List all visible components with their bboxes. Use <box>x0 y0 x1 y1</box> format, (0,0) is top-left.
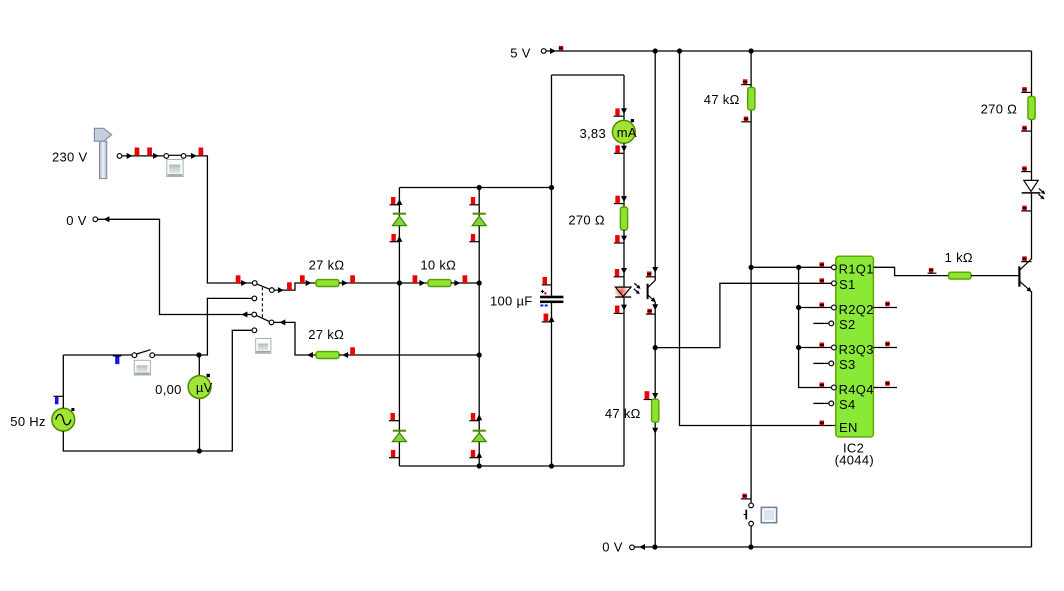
resistor 27k bottom <box>316 352 339 359</box>
wire Q2 output stub <box>873 307 897 309</box>
wire opto collector leg <box>654 51 656 281</box>
svg-text:R3Q3: R3Q3 <box>839 342 874 357</box>
current arrow up <box>476 414 482 420</box>
current bar <box>542 277 552 285</box>
current bar <box>469 234 479 242</box>
wire AC bottom lead <box>63 431 199 451</box>
wire AC row to switch <box>63 354 132 356</box>
current bar <box>463 275 468 283</box>
wire 27k bottom to mid leg <box>339 354 479 356</box>
node junction uV meter bottom <box>197 448 202 453</box>
wire S2 stub <box>813 322 829 324</box>
svg-text:270 Ω: 270 Ω <box>568 212 605 227</box>
current arrow <box>342 280 348 286</box>
svg-text:S2: S2 <box>839 317 856 332</box>
svg-text:S4: S4 <box>839 397 856 412</box>
push button SW2 <box>134 360 150 375</box>
op IC2 body <box>836 256 874 437</box>
node junction bridge top mid <box>477 185 482 190</box>
pin circle R3Q3 <box>832 345 837 350</box>
current bar <box>469 413 479 421</box>
current arrow <box>241 280 247 286</box>
current bar <box>147 148 152 156</box>
wire pole E to 27k bottom <box>274 322 316 355</box>
current arrow <box>307 352 313 358</box>
current arrow up <box>396 199 402 205</box>
wire switch to node <box>155 354 199 356</box>
light arrows <box>1038 188 1046 201</box>
current bar <box>236 275 241 283</box>
current arrow <box>153 153 159 159</box>
terminal 5 V <box>541 48 556 54</box>
voltage marker small <box>1021 166 1031 171</box>
svg-text:27 kΩ: 27 kΩ <box>309 257 345 272</box>
voltage marker small <box>1021 126 1031 131</box>
switch SW1 (closed) <box>164 154 186 159</box>
wire 0V bottom rail <box>635 546 1032 548</box>
LED of optocoupler (lit) <box>614 284 631 299</box>
wire switch to rail <box>750 526 752 547</box>
voltage marker small <box>741 494 751 499</box>
current arrow down <box>621 108 627 114</box>
resistor 47k mid <box>652 399 659 422</box>
wire LED to bottom rail <box>623 298 625 466</box>
node junction bridge bottom cap <box>549 463 554 468</box>
pin circle S2 <box>829 321 834 326</box>
svg-text:S3: S3 <box>839 357 856 372</box>
pin circle R4Q4 <box>832 385 837 390</box>
current bar <box>644 391 656 399</box>
current arrow <box>306 280 312 286</box>
node junction mid leg bottom row <box>477 352 482 357</box>
current bar <box>135 148 140 156</box>
resistor 270 right <box>1028 96 1035 119</box>
voltage marker small R3 <box>820 343 824 348</box>
node junction mid bridge leg top row <box>477 280 482 285</box>
wire bridge left leg <box>398 188 400 467</box>
voltage marker small <box>1021 256 1031 261</box>
svg-text:0 V: 0 V <box>66 213 86 228</box>
pin circle S4 <box>829 401 834 406</box>
current arrow down <box>621 196 627 202</box>
voltage marker small <box>741 117 751 122</box>
wire right leg upper <box>1031 51 1033 180</box>
current arrow <box>419 280 425 286</box>
svg-text:0 V: 0 V <box>602 539 622 554</box>
svg-text:10 kΩ: 10 kΩ <box>420 257 456 272</box>
push switch SW3 <box>744 503 754 526</box>
voltage marker small <box>646 309 655 314</box>
push button SW3 <box>761 507 776 522</box>
wire meter to resistor <box>623 143 625 207</box>
wire pole B to 27k top <box>274 283 316 290</box>
resistor 27k top <box>316 280 339 287</box>
wire 47k top leg <box>750 51 752 503</box>
wire resistor to LED <box>623 230 625 287</box>
node junction left bridge leg top row <box>397 280 402 285</box>
node junction 47k to R1 row <box>749 265 754 270</box>
wire right leg lower <box>1031 291 1033 547</box>
current arrow up <box>396 236 402 242</box>
svg-text:EN: EN <box>839 420 858 435</box>
wire 0V to DPDT pole D <box>98 219 252 314</box>
current arrow down <box>652 304 658 310</box>
wire S4 stub <box>813 402 829 404</box>
current bar <box>614 108 624 116</box>
svg-text:27 kΩ: 27 kΩ <box>308 327 344 342</box>
wire R1 row <box>751 266 831 268</box>
current bar <box>350 347 355 355</box>
wire 27k to 10k <box>339 282 428 284</box>
voltage marker small R1 <box>820 262 824 267</box>
svg-text:5 V: 5 V <box>510 46 530 61</box>
wire Q3 output stub <box>873 347 897 349</box>
wire cap leg upper <box>551 75 553 296</box>
pin circle S1 <box>832 281 837 286</box>
wire switch to DPDT pole A <box>186 156 252 283</box>
voltage marker small Q2 <box>885 302 889 307</box>
wire emitter node to S1 pin <box>655 283 831 347</box>
voltmeter uV <box>188 355 213 451</box>
svg-text:3,83: 3,83 <box>579 126 606 141</box>
push button SW1 <box>167 160 183 177</box>
voltage marker small <box>1021 206 1031 211</box>
push button DPDT <box>256 339 271 354</box>
svg-text:270 Ω: 270 Ω <box>981 102 1018 117</box>
light arrows <box>634 283 642 295</box>
phototransistor of optocoupler <box>648 280 658 304</box>
wire cap leg lower <box>551 303 553 466</box>
current arrow <box>454 280 460 286</box>
wire R2 stub <box>799 307 832 309</box>
wire pole C down to AC row <box>199 298 252 355</box>
wire S3 stub <box>813 362 829 364</box>
svg-text:S1: S1 <box>839 277 856 292</box>
node junction rail switch leg <box>748 544 753 549</box>
current bar <box>389 450 399 458</box>
svg-text:R4Q4: R4Q4 <box>839 382 874 397</box>
wire LED leg top <box>623 75 625 121</box>
wire Q1 output <box>873 267 948 275</box>
current bar <box>614 269 624 277</box>
current arrow up <box>476 452 482 458</box>
current arrow down <box>621 146 627 152</box>
current arrow down <box>621 305 627 311</box>
voltage marker small Q4 <box>885 381 889 386</box>
LED right (off) <box>1022 180 1041 193</box>
diode D2 <box>472 214 486 226</box>
resistor 47k top <box>748 87 755 110</box>
current bar <box>469 450 479 458</box>
current arrow down <box>652 428 658 434</box>
svg-text:µV: µV <box>196 380 213 395</box>
pin circle R1Q1 <box>832 265 837 270</box>
svg-text:R2Q2: R2Q2 <box>839 302 874 317</box>
current arrow <box>242 312 248 318</box>
wire AC top lead <box>62 355 64 408</box>
voltage marker small <box>741 79 751 84</box>
wire inner loop top <box>552 74 625 76</box>
svg-text:47 kΩ: 47 kΩ <box>605 406 641 421</box>
terminal 230 V <box>117 153 132 159</box>
current bar <box>614 196 624 204</box>
resistor 1k <box>949 272 972 279</box>
node junction rail 47k leg <box>749 48 754 53</box>
node junction R column top <box>796 265 801 270</box>
wire bridge bottom rail <box>399 465 624 467</box>
current bar <box>287 282 292 290</box>
wire EN leg <box>680 51 836 426</box>
wire 1k to base <box>971 275 1019 277</box>
voltage marker small EN <box>820 421 824 426</box>
transistor Q1 <box>1019 259 1033 294</box>
current bar <box>614 145 624 153</box>
wire bridge top rail <box>399 187 551 189</box>
voltage bar blue <box>113 356 122 364</box>
svg-text:(4044): (4044) <box>835 453 874 468</box>
svg-text:230 V: 230 V <box>52 149 88 164</box>
node junction uV meter top <box>196 352 201 357</box>
current bar <box>350 275 355 283</box>
voltage marker small R2 <box>820 303 824 308</box>
voltage marker small S1 <box>820 278 824 283</box>
current bar <box>390 234 400 242</box>
voltage marker small <box>559 46 563 51</box>
switch SW2 (open) <box>132 350 155 358</box>
DPDT switch pole 2 <box>252 312 274 333</box>
current bar <box>469 197 479 205</box>
current bar <box>614 305 624 313</box>
wire 5V rail <box>546 50 1031 52</box>
wire R column <box>799 267 832 387</box>
current bar <box>389 413 399 421</box>
current bar <box>413 275 418 283</box>
wire bridge mid leg <box>478 188 480 467</box>
node junction rail opto leg <box>653 48 658 53</box>
DPDT gang link <box>261 287 263 318</box>
node junction R column R2 <box>796 305 801 310</box>
current bar <box>199 148 204 156</box>
svg-text:100 µF: 100 µF <box>490 293 533 308</box>
current arrow down <box>621 268 627 274</box>
wire opto emitter leg <box>654 302 656 548</box>
node junction R column R3 <box>796 345 801 350</box>
DPDT switch pole 1 <box>252 281 274 301</box>
current bar <box>614 235 624 243</box>
voltage marker small 1k <box>928 268 937 273</box>
pin circle R2Q2 <box>832 305 837 310</box>
voltage marker small Q3 <box>885 342 889 347</box>
svg-text:R1Q1: R1Q1 <box>839 262 874 277</box>
node junction bridge bottom mid <box>477 463 482 468</box>
svg-text:mA: mA <box>617 125 637 140</box>
current arrow down <box>652 267 658 273</box>
current arrow down <box>621 236 627 242</box>
diode D4 <box>472 431 486 442</box>
wire pole F down to meter bottom row <box>199 330 252 451</box>
svg-text:1 kΩ: 1 kΩ <box>945 250 973 265</box>
svg-text:50 Hz: 50 Hz <box>10 414 45 429</box>
current bar <box>300 275 305 283</box>
AC source 50 Hz <box>52 408 75 431</box>
terminal 0 V bottom <box>630 544 645 550</box>
node junction rail opto leg <box>652 544 657 549</box>
svg-text:0,00: 0,00 <box>155 382 182 397</box>
wire Q4 output stub <box>873 387 897 389</box>
pin circle S3 <box>829 361 834 366</box>
wire 10k to mid leg <box>451 282 479 284</box>
voltage marker small R4 <box>820 383 824 388</box>
current bar <box>542 314 552 322</box>
current arrow <box>342 352 348 358</box>
wire right leg mid <box>1031 193 1033 259</box>
svg-text:47 kΩ: 47 kΩ <box>704 92 740 107</box>
diode D3 <box>392 431 406 442</box>
node junction rail EN leg <box>677 48 682 53</box>
ammeter mA <box>612 119 636 143</box>
resistor 270 mid <box>620 207 627 230</box>
capacitor C1 100uF <box>540 290 563 306</box>
current arrow <box>278 287 284 293</box>
mains plug symbol 230 V <box>94 128 111 178</box>
wire R3 stub <box>799 347 832 349</box>
current arrow down <box>652 393 658 399</box>
diode D1 <box>392 214 406 226</box>
current arrow up <box>549 316 555 322</box>
node junction opto emitter to S1 <box>653 345 658 350</box>
voltage marker small <box>646 272 655 277</box>
current arrow <box>191 153 197 159</box>
wire terminal to switch <box>122 155 164 157</box>
voltage bar blue <box>54 396 64 404</box>
node junction bridge top cap <box>549 185 554 190</box>
terminal 0 V left <box>93 216 109 222</box>
resistor 10k <box>428 280 451 287</box>
current bar <box>390 197 400 205</box>
voltage marker small <box>1021 87 1031 92</box>
current arrow <box>279 319 285 325</box>
